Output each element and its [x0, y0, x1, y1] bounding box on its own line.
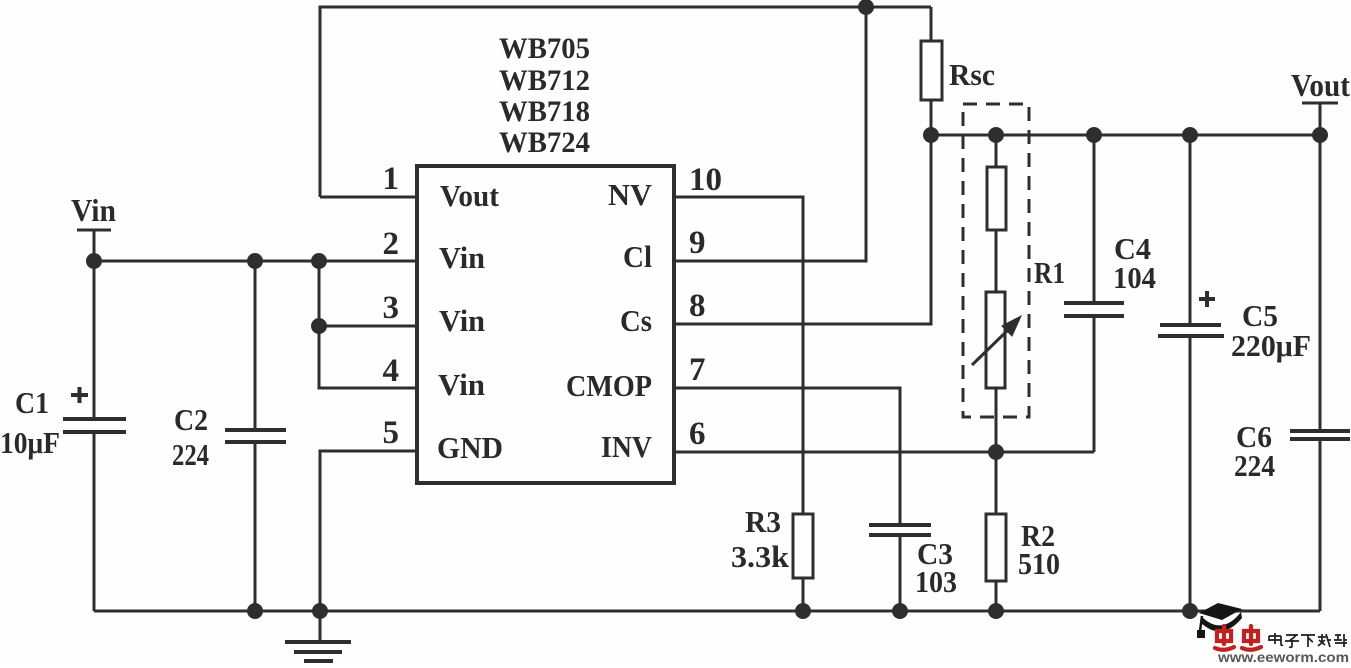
wire C1 branch: [93, 261, 96, 611]
plus sign C5: [1199, 291, 1215, 307]
wire pin 7 to C3: [674, 388, 900, 611]
wire top loop from pin 1 to Rsc: [320, 7, 931, 197]
plus sign C1: [71, 387, 88, 403]
wire pin 9 to top loop: [674, 7, 866, 261]
svg-text:Rsc: Rsc: [949, 57, 995, 92]
wire pin 8 to Rsc bottom: [674, 135, 931, 324]
svg-text:Vin: Vin: [438, 367, 485, 402]
wire C4 branch: [1093, 135, 1096, 452]
wire Rsc bottom lead: [930, 100, 933, 135]
svg-text:Vout: Vout: [440, 178, 500, 213]
value 220uF: [1231, 328, 1311, 363]
svg-text:8: 8: [689, 288, 706, 324]
resistor R3: [793, 514, 813, 578]
resistor Rsc: [921, 41, 942, 100]
capacitor C3 plates: [869, 525, 931, 535]
svg-text:2: 2: [383, 226, 400, 262]
capacitor C5 plates: [1158, 325, 1224, 336]
pin 6: [689, 416, 706, 452]
svg-text:WB712: WB712: [499, 64, 590, 97]
capacitor C2 plates: [225, 430, 286, 442]
watermark logo: [1197, 603, 1349, 665]
svg-text:C2: C2: [174, 402, 208, 437]
pin 1: [383, 161, 400, 197]
capacitor C4 plates: [1064, 303, 1124, 316]
value 10uF: [0, 425, 60, 460]
svg-text:4: 4: [383, 353, 400, 389]
svg-text:WB718: WB718: [499, 95, 590, 128]
svg-text:Cl: Cl: [623, 239, 652, 274]
svg-text:6: 6: [689, 416, 706, 452]
pin 5: [383, 415, 400, 451]
wire bottom ground rail: [94, 610, 1320, 613]
wire C5 branch: [1189, 135, 1192, 611]
IC pin name Vin 2: [439, 240, 485, 275]
svg-text:Vin: Vin: [71, 192, 116, 228]
svg-text:INV: INV: [601, 429, 653, 464]
IC pin name GND: [437, 430, 503, 465]
potentiometer R1 body: [986, 167, 1006, 388]
svg-text:10μF: 10μF: [0, 425, 60, 460]
svg-text:NV: NV: [608, 177, 653, 212]
label C4: [1114, 231, 1151, 266]
value 224 C2: [172, 437, 209, 472]
pin 8: [689, 288, 706, 324]
value 103: [915, 564, 957, 599]
label WB705 WB712 WB718 WB724: [499, 32, 590, 159]
svg-text:510: 510: [1018, 546, 1060, 581]
svg-text:10: 10: [689, 162, 722, 198]
label C6: [1236, 419, 1272, 454]
svg-text:1: 1: [383, 161, 400, 197]
wire pin 10 to R3: [674, 197, 803, 611]
svg-text:Vout: Vout: [1291, 67, 1350, 103]
svg-text:9: 9: [689, 225, 706, 261]
value 104: [1113, 260, 1156, 295]
IC pin name Cs: [620, 303, 652, 338]
svg-text:103: 103: [915, 564, 957, 599]
label C1: [15, 385, 49, 420]
IC pin name Vin 3: [439, 303, 485, 338]
wire pin 5 GND branch: [320, 451, 417, 641]
node Vout terminal: [1302, 103, 1338, 135]
potentiometer R1 arrow: [972, 316, 1021, 365]
IC pin name Vin 4: [438, 367, 485, 402]
capacitor C6 plates: [1290, 431, 1350, 439]
value 510: [1018, 546, 1060, 581]
node Vin terminal: [77, 230, 111, 261]
label R3: [745, 504, 781, 539]
svg-text:C1: C1: [15, 385, 49, 420]
svg-text:7: 7: [689, 352, 706, 388]
svg-text:WB705: WB705: [499, 32, 590, 65]
wire pin 1 stub: [320, 196, 417, 199]
IC pin name Vout: [440, 178, 500, 213]
pin 7: [689, 352, 706, 388]
IC pin name CMOP: [566, 368, 652, 403]
svg-text:5: 5: [383, 415, 400, 451]
wire output rail: [931, 134, 1320, 137]
IC pin name INV: [601, 429, 653, 464]
pin 9: [689, 225, 706, 261]
label Rsc: [949, 57, 995, 92]
svg-text:WB724: WB724: [499, 126, 590, 159]
IC U1 box: [417, 166, 674, 483]
label Vout terminal: [1291, 67, 1350, 103]
pin 4: [383, 353, 400, 389]
svg-text:224: 224: [1234, 448, 1275, 483]
svg-text:www.eeworm.com: www.eeworm.com: [1217, 650, 1349, 663]
wire C2 branch: [254, 261, 257, 611]
svg-text:Vin: Vin: [439, 303, 485, 338]
resistor R2: [986, 514, 1006, 581]
svg-text:220μF: 220μF: [1231, 328, 1311, 363]
dashed box around R1: [963, 104, 1029, 417]
value 3.3k: [731, 539, 790, 574]
wire R2 leads: [995, 452, 998, 611]
IC pin name Cl: [623, 239, 652, 274]
pin 10: [689, 162, 722, 198]
value 224 C6: [1234, 448, 1275, 483]
wire R1 leads: [995, 135, 998, 452]
svg-text:R1: R1: [1034, 255, 1065, 290]
svg-text:Cs: Cs: [620, 303, 652, 338]
svg-text:CMOP: CMOP: [566, 368, 652, 403]
wire pin 6 INV net: [674, 451, 1094, 454]
label C3: [917, 536, 953, 571]
svg-text:Vin: Vin: [439, 240, 485, 275]
wire Rsc top lead: [930, 7, 933, 41]
svg-text:GND: GND: [437, 430, 503, 465]
IC pin name NV: [608, 177, 653, 212]
wire pin 4 branch: [319, 326, 417, 388]
label Vin terminal: [71, 192, 116, 228]
wire Vin net horizontal to pin 2: [94, 260, 417, 263]
svg-text:R3: R3: [745, 504, 781, 539]
label C5: [1242, 298, 1278, 333]
capacitor C1 plates: [63, 419, 126, 432]
svg-text:3: 3: [383, 290, 400, 326]
wire C6 branch: [1319, 135, 1322, 611]
label R2: [1021, 518, 1055, 553]
ground: [285, 642, 351, 661]
label R1: [1034, 255, 1065, 290]
svg-text:104: 104: [1113, 260, 1156, 295]
wire pin 3 branch: [319, 261, 417, 326]
svg-text:3.3k: 3.3k: [731, 539, 790, 574]
svg-text:224: 224: [172, 437, 209, 472]
label C2: [174, 402, 208, 437]
pin 2: [383, 226, 400, 262]
pin 3: [383, 290, 400, 326]
